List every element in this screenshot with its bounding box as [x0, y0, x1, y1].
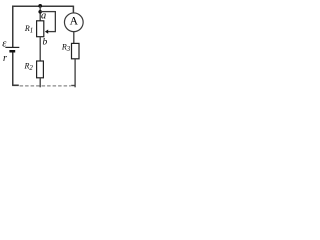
wire R2 bottom to bottom rail	[39, 78, 41, 88]
wire wiper horizontal into arrow	[47, 31, 56, 33]
svg-text:A: A	[70, 15, 79, 28]
wire top rail	[13, 6, 74, 12]
battery cell long plate (+)	[5, 46, 19, 48]
wire top rail corner down to ammeter	[72, 6, 74, 14]
svg-text:a: a	[41, 11, 46, 22]
wire bottom rail solid start	[12, 84, 19, 86]
ammeter A circle	[64, 13, 83, 32]
wire left side lower	[12, 52, 14, 85]
wire from top rail down to R1 terminal a	[39, 6, 41, 21]
wire bottom rail end segment	[71, 85, 75, 87]
svg-text:r: r	[3, 53, 7, 64]
battery cell short thick plate (-)	[9, 50, 15, 53]
wire wiper branch vertical	[54, 11, 56, 32]
wire R1 bottom to R2 top	[39, 37, 41, 61]
wire left side upper (to battery)	[12, 6, 14, 48]
svg-text:R2: R2	[24, 62, 34, 72]
svg-text:b: b	[43, 38, 48, 48]
wire wiper branch horizontal	[40, 11, 55, 13]
resistor R1 box	[37, 21, 44, 37]
wire bottom rail (faded dashed)	[20, 85, 71, 87]
resistor R2 box	[37, 61, 44, 78]
wire R3 bottom to bottom rail	[74, 59, 76, 88]
svg-text:R3: R3	[61, 43, 71, 53]
node junction dot wiper branch	[38, 10, 42, 14]
wiper arrowhead	[45, 30, 48, 34]
resistor R3 box	[72, 43, 80, 58]
svg-text:R1: R1	[24, 24, 33, 34]
wire ammeter bottom to R3	[73, 31, 75, 43]
node junction dot on top rail	[38, 4, 42, 8]
